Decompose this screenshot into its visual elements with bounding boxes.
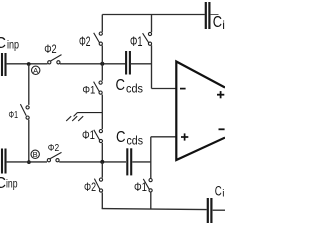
op-amp non-inverting input label [181, 133, 188, 140]
svg-text:inp: inp [7, 38, 19, 52]
capacitor Ccds (top) [126, 51, 130, 75]
label Ci (bottom) [215, 184, 225, 200]
svg-text:C: C [215, 184, 222, 199]
switch phi1 mid-bottom vertical [82, 113, 103, 162]
switch phi1 left (A-B shorting) [9, 104, 30, 121]
node B junction dot [27, 160, 31, 164]
wire node A drop [28, 64, 30, 105]
wire bottom rail [102, 209, 207, 210]
junction dot top mid [100, 62, 104, 66]
svg-text:Φ1: Φ1 [134, 182, 147, 194]
wire bottom signal right [132, 161, 151, 163]
wire to op-amp inverting input [152, 88, 177, 90]
node A [32, 66, 40, 75]
svg-text:Φ2: Φ2 [44, 44, 57, 56]
label Cinp (bottom) [0, 175, 18, 192]
svg-text:Φ1: Φ1 [9, 109, 19, 121]
svg-text:Φ2: Φ2 [48, 142, 60, 154]
switch phi2 top-left vertical [79, 15, 102, 64]
svg-text:Φ2: Φ2 [84, 182, 96, 194]
node B [31, 150, 39, 159]
wire A-B link lower [28, 120, 30, 162]
svg-text:C: C [0, 35, 6, 52]
junction dot bottom mid [100, 160, 104, 164]
label Ci (top) [213, 14, 225, 32]
svg-text:B: B [33, 150, 38, 159]
node A junction dot [27, 62, 31, 66]
wire to op-amp non-inverting input [151, 136, 177, 138]
op-amp positive output label [217, 91, 224, 98]
svg-text:C: C [116, 77, 126, 94]
svg-text:Φ1: Φ1 [82, 85, 95, 97]
capacitor Ci (top feedback) [206, 2, 210, 29]
switch phi2 bottom vertical [84, 162, 103, 209]
wire top signal left [7, 63, 48, 65]
wire top rail [102, 14, 205, 16]
svg-text:Φ2: Φ2 [79, 34, 91, 49]
svg-text:inp: inp [6, 177, 18, 191]
svg-text:C: C [213, 14, 222, 31]
wire bottom signal left [7, 161, 47, 163]
label Ccds (bottom) [116, 129, 143, 147]
op-amp U1 [176, 62, 225, 161]
svg-text:Φ1: Φ1 [82, 130, 95, 142]
svg-text:i: i [222, 18, 225, 32]
capacitor Cinp (top input) [2, 53, 6, 76]
ground [66, 113, 102, 121]
label Cinp (top) [0, 35, 19, 52]
svg-text:cds: cds [126, 84, 143, 96]
switch phi1 mid-top vertical [82, 64, 102, 113]
capacitor Cinp (bottom input) [2, 149, 6, 174]
svg-text:C: C [116, 129, 126, 146]
switch phi1 top-right vertical [130, 15, 152, 89]
svg-text:i: i [222, 189, 224, 200]
wire Ci bottom right [213, 209, 225, 211]
switch phi2 bottom horizontal [47, 142, 61, 162]
capacitor Ci (bottom feedback) [208, 198, 212, 223]
wire top signal right [131, 63, 152, 65]
svg-text:Φ1: Φ1 [130, 34, 143, 49]
wire Ci top right [211, 14, 219, 16]
label Ccds (top) [116, 77, 144, 96]
op-amp negative output label [219, 128, 225, 130]
wire top signal mid [60, 63, 125, 65]
wire bottom signal mid [59, 161, 126, 163]
switch phi1 bottom-right vertical [134, 137, 152, 209]
capacitor Ccds (bottom) [127, 148, 131, 175]
svg-text:cds: cds [127, 135, 144, 147]
op-amp inverting input label [180, 88, 186, 90]
switch phi2 top horizontal [44, 44, 61, 64]
